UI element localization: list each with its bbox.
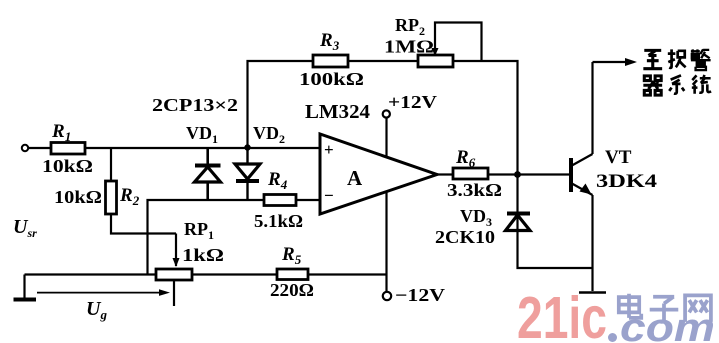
wire: op-amp output to transistor base (437, 173, 569, 175)
resistor R3 (299, 30, 364, 89)
-12V supply terminal (383, 285, 445, 305)
resistor R1 (42, 121, 93, 176)
wire: RP2 wiper loop (435, 23, 482, 62)
node Ug dimension arrow and label (37, 289, 170, 322)
svg-text:RP2: RP2 (395, 15, 425, 38)
svg-text:1MΩ: 1MΩ (384, 37, 434, 57)
wire: top feedback line with down legs at both ends (248, 61, 518, 175)
svg-text:R4: R4 (267, 169, 288, 192)
svg-text:5.1kΩ: 5.1kΩ (254, 211, 303, 231)
svg-text:21ic: 21ic (517, 285, 607, 343)
potentiometer RP2 (384, 15, 453, 67)
wire: main input line from terminal to op-amp plus input (28, 147, 320, 149)
svg-text:100kΩ: 100kΩ (299, 69, 364, 89)
svg-text:2CK10: 2CK10 (435, 227, 495, 247)
svg-text:Ug: Ug (86, 298, 107, 322)
svg-text:VD1: VD1 (186, 123, 218, 146)
wire: bottom bias rail from ground to -12V line (25, 273, 388, 275)
resistor R6 (447, 147, 502, 200)
+12V supply terminal (383, 92, 437, 118)
svg-text:VT: VT (605, 147, 632, 168)
wire: output arrow to alarm system (593, 58, 638, 66)
potentiometer RP1 (156, 219, 224, 306)
svg-text:R3: R3 (319, 30, 340, 53)
svg-text:R5: R5 (281, 244, 302, 267)
wire: op-amp power line +12V to -12V (385, 117, 387, 292)
svg-text:10kΩ: 10kΩ (42, 156, 93, 176)
transistor VT (3DK4) (571, 62, 593, 291)
svg-text:VD2: VD2 (253, 123, 285, 146)
svg-text:R2: R2 (119, 185, 140, 208)
diode VD1 (195, 148, 221, 200)
svg-text:+12V: +12V (388, 92, 437, 112)
svg-text:2CP13×2: 2CP13×2 (152, 95, 238, 115)
svg-text:A: A (347, 166, 363, 190)
resistor R5 (270, 244, 314, 300)
label VT 3DK4 (596, 147, 658, 192)
svg-text:220Ω: 220Ω (270, 280, 314, 300)
label VD1 (186, 123, 218, 146)
node: junction dot at plus-input / VD2 (244, 144, 250, 150)
svg-text:com: com (620, 306, 715, 343)
svg-text:Usr: Usr (13, 216, 37, 240)
resistor R4 (254, 169, 303, 231)
resistor R2 (54, 181, 140, 214)
wire: R2 branch down from input line (110, 148, 112, 182)
svg-text:+: + (324, 140, 334, 159)
svg-text:VD3: VD3 (460, 206, 492, 229)
ground (right, emitter) (579, 291, 606, 294)
svg-text:−: − (324, 186, 334, 205)
label VD3 2CK10 (435, 206, 495, 247)
label VD2 (253, 123, 285, 146)
label: to alarm system (Chinese) 至报警器系统 (643, 49, 711, 95)
node: junction dot at R6 / feedback / base (514, 171, 521, 178)
op-amp U1 (LM324) A (305, 101, 437, 214)
svg-text:3DK4: 3DK4 (596, 171, 658, 192)
diode VD2 (235, 148, 260, 201)
ground (left) (14, 275, 37, 300)
svg-text:R1: R1 (51, 121, 71, 144)
wire: VD3 leg down and right to emitter line (518, 175, 593, 269)
input terminal circle (22, 145, 28, 151)
diode VD3 (506, 214, 531, 231)
svg-text:RP1: RP1 (184, 219, 214, 242)
svg-text:LM324: LM324 (305, 101, 370, 123)
node Usr input label (13, 216, 37, 240)
svg-text:−12V: −12V (395, 285, 445, 305)
svg-text:10kΩ: 10kΩ (54, 187, 102, 207)
svg-text:1kΩ: 1kΩ (182, 245, 224, 265)
watermark 21ic.com 电子网 (517, 285, 715, 343)
svg-text:3.3kΩ: 3.3kΩ (447, 180, 502, 200)
label 2CP13x2 (152, 95, 238, 115)
wire: R2 bottom down and right to RP1 wiper (111, 210, 176, 234)
svg-text:R6: R6 (455, 147, 476, 170)
wire: diode bottoms to R4 and op-amp minus input (148, 200, 321, 275)
